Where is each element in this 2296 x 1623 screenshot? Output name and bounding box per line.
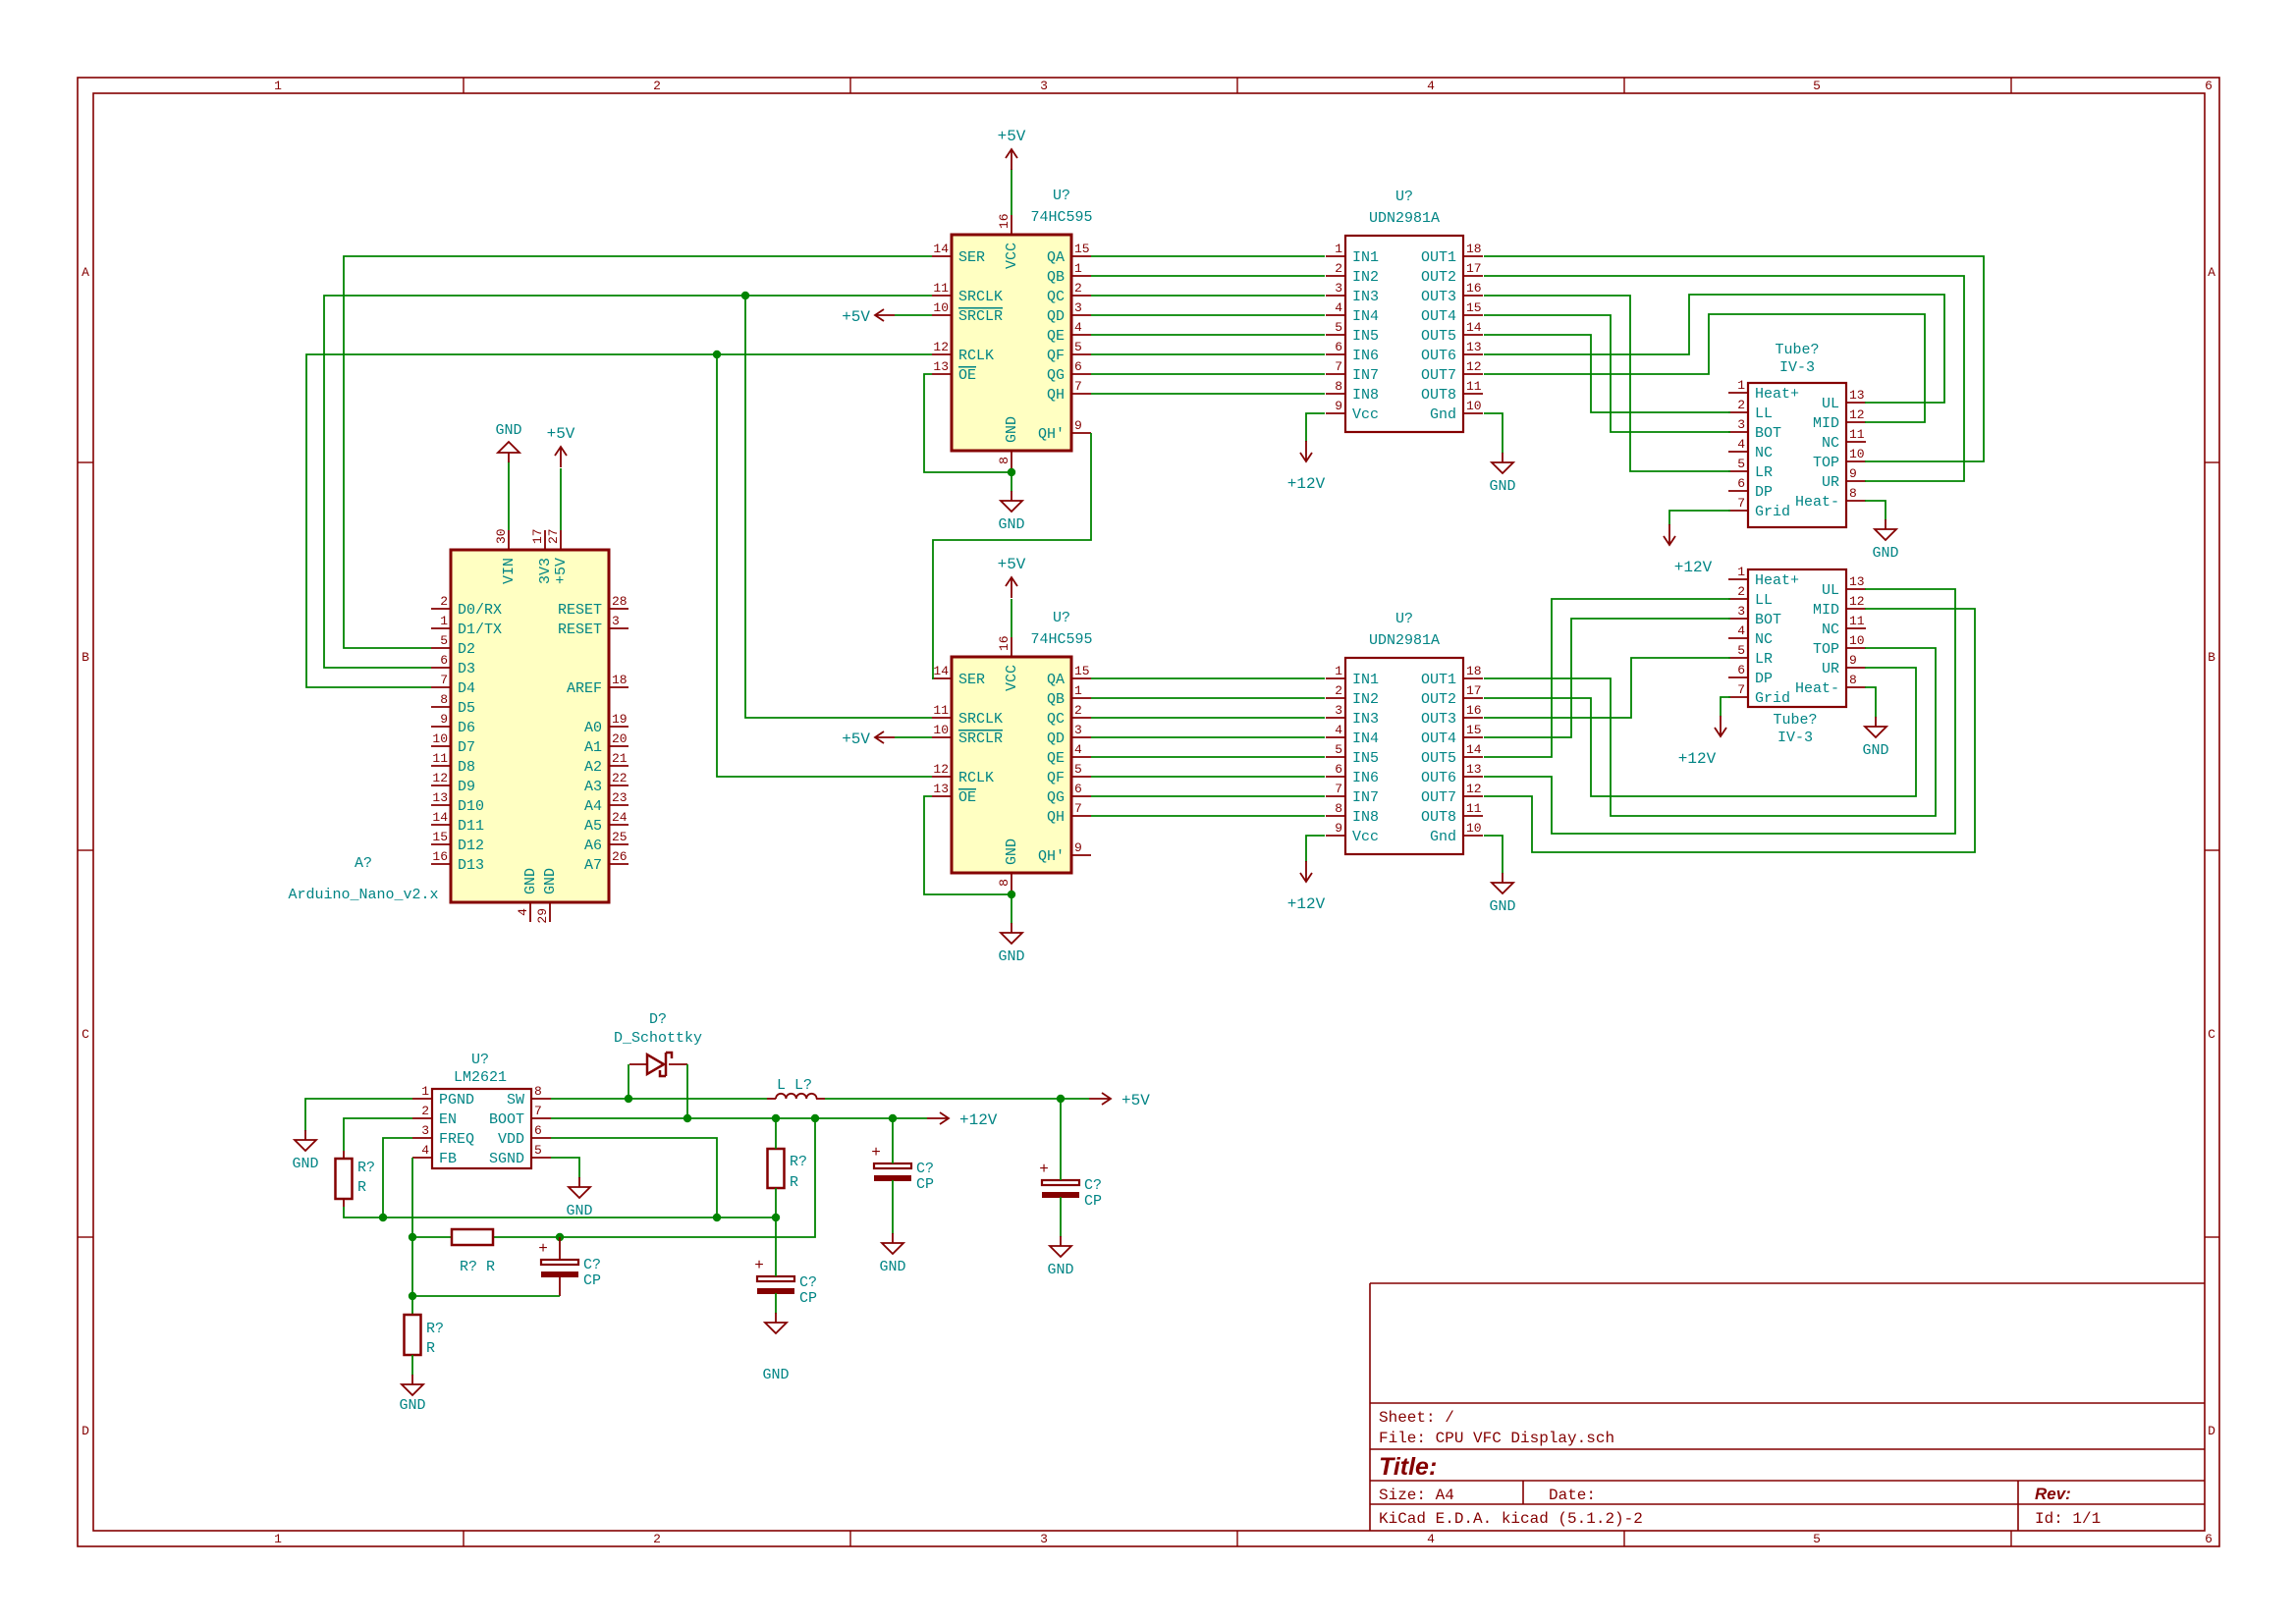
ground below U2: [998, 923, 1024, 965]
svg-text:C?: C?: [799, 1274, 817, 1291]
svg-text:RESET: RESET: [558, 602, 602, 619]
svg-text:IN2: IN2: [1352, 269, 1379, 286]
svg-text:20: 20: [612, 731, 628, 746]
svg-text:GND: GND: [1489, 478, 1515, 495]
svg-text:30: 30: [494, 528, 509, 544]
svg-text:SRCLR: SRCLR: [958, 730, 1003, 747]
svg-text:3V3: 3V3: [537, 558, 554, 584]
svg-text:2: 2: [1335, 261, 1342, 276]
svg-text:IV-3: IV-3: [1779, 359, 1815, 376]
svg-text:4: 4: [1074, 320, 1082, 335]
svg-text:5: 5: [1074, 340, 1082, 354]
junction U1 GND: [1008, 468, 1015, 476]
power +12V output arrow: [927, 1111, 998, 1129]
svg-text:IN3: IN3: [1352, 289, 1379, 305]
svg-text:9: 9: [440, 712, 448, 727]
svg-text:SGND: SGND: [489, 1151, 524, 1167]
svg-text:8: 8: [440, 692, 448, 707]
svg-text:2: 2: [1335, 683, 1342, 698]
svg-text:B: B: [2208, 650, 2215, 665]
svg-text:OUT4: OUT4: [1421, 730, 1456, 747]
svg-text:2: 2: [421, 1104, 429, 1118]
wire VCC U2 to +5V: [1011, 599, 1012, 637]
svg-text:C?: C?: [916, 1161, 934, 1177]
svg-text:16: 16: [997, 213, 1011, 229]
svg-text:2: 2: [440, 594, 448, 609]
svg-text:IN5: IN5: [1352, 328, 1379, 345]
svg-text:+: +: [871, 1144, 881, 1162]
power +5V above U1: [998, 128, 1026, 170]
wire inductor to +5V output: [825, 1098, 1089, 1100]
svg-text:8: 8: [997, 879, 1011, 887]
svg-text:C: C: [2208, 1027, 2215, 1042]
svg-text:1: 1: [1737, 378, 1745, 393]
wires U1 outputs to UDN1 inputs: [1091, 256, 1325, 394]
svg-text:OUT2: OUT2: [1421, 691, 1456, 708]
svg-text:D12: D12: [458, 838, 484, 854]
wire U1 GND pin down: [1011, 470, 1012, 492]
wire UDN1 Gnd down: [1484, 413, 1503, 454]
junction +12V FB tap: [811, 1114, 819, 1122]
svg-text:QC: QC: [1047, 711, 1065, 728]
svg-text:OUT8: OUT8: [1421, 387, 1456, 404]
svg-text:GND: GND: [998, 948, 1024, 965]
wire +5V pin up: [560, 468, 562, 530]
wire R1 bottom to VDD rail: [344, 1207, 776, 1217]
wire EN to R1 top: [344, 1118, 412, 1151]
svg-text:5: 5: [1813, 1532, 1821, 1546]
ground below C3: [762, 1313, 789, 1383]
svg-text:OUT5: OUT5: [1421, 328, 1456, 345]
svg-text:OUT4: OUT4: [1421, 308, 1456, 325]
svg-text:3: 3: [1074, 723, 1082, 737]
svg-text:LR: LR: [1755, 464, 1773, 481]
svg-text:1: 1: [1335, 242, 1342, 256]
svg-text:OUT7: OUT7: [1421, 367, 1456, 384]
svg-text:3: 3: [1335, 703, 1342, 718]
svg-text:12: 12: [432, 771, 448, 785]
svg-text:OUT7: OUT7: [1421, 789, 1456, 806]
svg-text:BOOT: BOOT: [489, 1111, 524, 1128]
svg-text:D9: D9: [458, 779, 475, 795]
svg-text:OUT6: OUT6: [1421, 770, 1456, 786]
wire OUT1 to tube2 TOP: [1484, 648, 1936, 816]
svg-text:7: 7: [534, 1104, 542, 1118]
svg-text:NC: NC: [1755, 631, 1773, 648]
wire OUT7 to tube1 MID: [1484, 314, 1925, 422]
svg-text:Heat-: Heat-: [1795, 680, 1839, 697]
svg-text:KiCad E.D.A. kicad (5.1.2)-2: KiCad E.D.A. kicad (5.1.2)-2: [1379, 1510, 1643, 1528]
resistor R3 (feedback): [452, 1229, 495, 1275]
wire VDD down: [551, 1138, 717, 1217]
wire diode anode up: [628, 1064, 629, 1099]
svg-text:GND: GND: [292, 1156, 318, 1172]
svg-text:6: 6: [1074, 359, 1082, 374]
svg-text:Rev:: Rev:: [2035, 1485, 2071, 1503]
svg-text:R: R: [790, 1174, 798, 1191]
svg-text:5: 5: [440, 633, 448, 648]
svg-text:VCC: VCC: [1004, 243, 1020, 269]
svg-text:R?: R?: [357, 1160, 375, 1176]
junction FB row1320: [409, 1292, 416, 1300]
svg-text:3: 3: [1074, 300, 1082, 315]
power +12V below tube2 Grid: [1678, 716, 1726, 768]
svg-text:17: 17: [1466, 683, 1482, 698]
svg-text:D0/RX: D0/RX: [458, 602, 502, 619]
svg-text:2: 2: [1737, 398, 1745, 412]
svg-text:CP: CP: [1084, 1193, 1102, 1210]
svg-text:11: 11: [1466, 379, 1482, 394]
svg-text:A7: A7: [584, 857, 602, 874]
ground below UDN2: [1489, 873, 1515, 915]
svg-text:Vcc: Vcc: [1352, 406, 1379, 423]
svg-text:10: 10: [1849, 633, 1865, 648]
svg-text:D4: D4: [458, 680, 475, 697]
svg-text:OE: OE: [958, 367, 976, 384]
svg-text:GND: GND: [399, 1397, 425, 1414]
svg-text:+12V: +12V: [959, 1111, 998, 1129]
svg-text:A0: A0: [584, 720, 602, 736]
junction C4 on +12V rail: [889, 1114, 897, 1122]
junction diode cathode on +12V rail: [683, 1114, 691, 1122]
svg-text:D5: D5: [458, 700, 475, 717]
svg-text:IN8: IN8: [1352, 809, 1379, 826]
junction RCLK net: [713, 351, 721, 358]
svg-text:OUT5: OUT5: [1421, 750, 1456, 767]
wire SRCLK branch to U2: [745, 296, 932, 718]
svg-text:+5V: +5V: [547, 425, 575, 443]
svg-text:RCLK: RCLK: [958, 770, 994, 786]
svg-text:Arduino_Nano_v2.x: Arduino_Nano_v2.x: [288, 887, 438, 903]
svg-text:NC: NC: [1755, 445, 1773, 461]
svg-text:GND: GND: [1047, 1262, 1073, 1278]
svg-text:SRCLK: SRCLK: [958, 711, 1003, 728]
svg-text:4: 4: [1335, 723, 1342, 737]
svg-text:C?: C?: [1084, 1177, 1102, 1194]
svg-text:CP: CP: [583, 1272, 601, 1289]
svg-text:VDD: VDD: [498, 1131, 524, 1148]
svg-text:6: 6: [1335, 340, 1342, 354]
svg-text:DP: DP: [1755, 671, 1773, 687]
svg-text:13: 13: [1466, 762, 1482, 777]
svg-text:GND: GND: [566, 1203, 592, 1219]
svg-text:A1: A1: [584, 739, 602, 756]
svg-text:1: 1: [274, 79, 282, 93]
svg-text:24: 24: [612, 810, 628, 825]
svg-text:VIN: VIN: [501, 558, 518, 584]
svg-text:14: 14: [933, 242, 949, 256]
wire UDN2 Gnd down: [1484, 836, 1503, 874]
svg-text:12: 12: [1849, 594, 1865, 609]
junction VDD rail: [713, 1214, 721, 1221]
capacitor C3: [754, 1217, 817, 1314]
power +5V at U1 SRCLR: [842, 308, 932, 326]
svg-text:1: 1: [421, 1084, 429, 1099]
svg-text:OUT3: OUT3: [1421, 289, 1456, 305]
ground below tube2 Heat-: [1862, 717, 1888, 759]
power +12V below UDN2: [1287, 861, 1326, 913]
svg-text:9: 9: [1335, 821, 1342, 836]
svg-text:Gnd: Gnd: [1430, 406, 1456, 423]
svg-text:4: 4: [1427, 79, 1435, 93]
svg-text:74HC595: 74HC595: [1030, 209, 1092, 226]
svg-text:UL: UL: [1822, 582, 1839, 599]
ground below U1: [998, 491, 1024, 533]
ground at LM2621 PGND: [292, 1130, 318, 1172]
svg-text:19: 19: [612, 712, 628, 727]
svg-text:QA: QA: [1047, 249, 1065, 266]
svg-text:QH: QH: [1047, 809, 1065, 826]
svg-text:3: 3: [1737, 604, 1745, 619]
svg-text:+5V: +5V: [553, 558, 570, 584]
wire diode cathode down: [686, 1064, 688, 1118]
svg-text:+5V: +5V: [998, 556, 1026, 573]
wires U2 outputs to UDN2 inputs: [1091, 678, 1325, 816]
svg-text:IN5: IN5: [1352, 750, 1379, 767]
svg-text:D2: D2: [458, 641, 475, 658]
svg-text:11: 11: [933, 703, 949, 718]
svg-text:8: 8: [1849, 673, 1857, 687]
VFD tube Tube2 IV-3: [1728, 565, 1866, 746]
junction R2 top: [772, 1114, 780, 1122]
svg-text:16: 16: [997, 635, 1011, 651]
svg-text:4: 4: [1737, 437, 1745, 452]
power +5V above U2: [998, 556, 1026, 598]
svg-text:IN8: IN8: [1352, 387, 1379, 404]
svg-text:Grid: Grid: [1755, 690, 1790, 707]
svg-text:LL: LL: [1755, 592, 1773, 609]
svg-text:QD: QD: [1047, 730, 1065, 747]
svg-text:RESET: RESET: [558, 622, 602, 638]
wire SW to diode anode: [551, 1098, 767, 1100]
wire D3 to SRCLK net: [324, 296, 932, 668]
svg-text:+12V: +12V: [1287, 475, 1326, 493]
svg-text:7: 7: [1737, 682, 1745, 697]
wire OUT1 to tube1 TOP: [1484, 256, 1984, 461]
svg-text:QA: QA: [1047, 672, 1065, 688]
svg-text:A2: A2: [584, 759, 602, 776]
svg-text:4: 4: [1737, 623, 1745, 638]
svg-text:18: 18: [1466, 242, 1482, 256]
capacitor C5: [1039, 1099, 1102, 1237]
capacitor C2: [538, 1237, 601, 1296]
svg-text:10: 10: [1849, 447, 1865, 461]
svg-text:+5V: +5V: [842, 308, 870, 326]
svg-text:NC: NC: [1822, 622, 1839, 638]
svg-text:22: 22: [612, 771, 628, 785]
svg-text:U?: U?: [1053, 188, 1070, 204]
wire UDN1 Vcc to +12V: [1306, 413, 1325, 442]
svg-text:21: 21: [612, 751, 628, 766]
svg-text:12: 12: [933, 762, 949, 777]
svg-text:R: R: [426, 1340, 435, 1357]
wire OUT3 to tube1 LR: [1484, 296, 1730, 471]
svg-text:4: 4: [516, 908, 530, 916]
svg-text:QB: QB: [1047, 269, 1065, 286]
svg-text:FREQ: FREQ: [439, 1131, 474, 1148]
wire OE2 to GND junction: [924, 796, 1011, 894]
svg-text:D: D: [2208, 1424, 2215, 1438]
svg-text:12: 12: [1466, 359, 1482, 374]
svg-text:6: 6: [440, 653, 448, 668]
svg-text:13: 13: [1466, 340, 1482, 354]
ground at LM2621 SGND: [566, 1177, 592, 1219]
svg-text:QG: QG: [1047, 367, 1065, 384]
svg-text:U?: U?: [1395, 189, 1413, 205]
svg-text:1: 1: [1737, 565, 1745, 579]
svg-text:3: 3: [1040, 1532, 1048, 1546]
svg-text:12: 12: [1849, 407, 1865, 422]
svg-text:B: B: [82, 650, 89, 665]
svg-text:12: 12: [933, 340, 949, 354]
svg-text:17: 17: [530, 528, 545, 544]
junction FREQ rail: [379, 1214, 387, 1221]
svg-text:QF: QF: [1047, 770, 1065, 786]
svg-text:C?: C?: [583, 1257, 601, 1273]
inductor L1: [767, 1077, 825, 1099]
svg-text:10: 10: [432, 731, 448, 746]
svg-text:Id: 1/1: Id: 1/1: [2035, 1510, 2101, 1528]
wire tube2 Grid to +12V: [1721, 697, 1730, 717]
MCU A1 Arduino Nano: [288, 528, 629, 923]
svg-text:13: 13: [1849, 574, 1865, 589]
svg-text:D?: D?: [649, 1011, 667, 1028]
svg-text:5: 5: [1737, 457, 1745, 471]
svg-text:7: 7: [1335, 359, 1342, 374]
svg-text:D3: D3: [458, 661, 475, 677]
svg-text:OUT2: OUT2: [1421, 269, 1456, 286]
svg-text:R?: R?: [790, 1154, 807, 1170]
svg-text:SW: SW: [507, 1092, 524, 1109]
svg-text:Heat+: Heat+: [1755, 572, 1799, 589]
svg-text:IN7: IN7: [1352, 367, 1379, 384]
svg-text:7: 7: [1335, 782, 1342, 796]
resistor R2 (divider top): [768, 1118, 808, 1217]
svg-text:+: +: [754, 1257, 764, 1274]
wire RCLK branch to U2: [717, 354, 932, 777]
svg-text:UL: UL: [1822, 396, 1839, 412]
wire OUT5 to tube2 LL: [1484, 599, 1730, 757]
svg-text:11: 11: [1849, 614, 1865, 628]
svg-text:8: 8: [1335, 801, 1342, 816]
svg-text:NC: NC: [1822, 435, 1839, 452]
svg-text:OUT1: OUT1: [1421, 672, 1456, 688]
svg-text:R? R: R? R: [460, 1259, 495, 1275]
svg-text:5: 5: [1737, 643, 1745, 658]
svg-text:2: 2: [1074, 281, 1082, 296]
svg-text:26: 26: [612, 849, 628, 864]
ground below tube1 Heat-: [1872, 519, 1898, 562]
wire OUT7 to tube2 MID: [1484, 609, 1975, 852]
svg-text:QF: QF: [1047, 348, 1065, 364]
svg-text:IV-3: IV-3: [1777, 730, 1813, 746]
svg-text:IN4: IN4: [1352, 308, 1379, 325]
svg-text:3: 3: [612, 614, 620, 628]
svg-text:Size: A4: Size: A4: [1379, 1487, 1454, 1504]
svg-text:27: 27: [546, 528, 561, 544]
svg-text:BOT: BOT: [1755, 425, 1781, 442]
svg-text:U?: U?: [1053, 610, 1070, 626]
svg-text:7: 7: [1737, 496, 1745, 511]
svg-text:U?: U?: [471, 1052, 489, 1068]
svg-text:QE: QE: [1047, 328, 1065, 345]
svg-text:QH': QH': [1038, 848, 1065, 865]
svg-text:2: 2: [653, 79, 661, 93]
svg-text:File: CPU VFC Display.sch: File: CPU VFC Display.sch: [1379, 1430, 1614, 1447]
wire BOOT +12V rail: [551, 1117, 927, 1119]
power +5V at U2 SRCLR: [842, 730, 932, 748]
svg-text:9: 9: [1074, 418, 1082, 433]
svg-text:R?: R?: [426, 1321, 444, 1337]
svg-text:1: 1: [1074, 683, 1082, 698]
svg-text:Heat-: Heat-: [1795, 494, 1839, 511]
wire UDN2 Vcc to +12V: [1306, 836, 1325, 862]
svg-text:8: 8: [1849, 486, 1857, 501]
svg-text:LM2621: LM2621: [454, 1069, 507, 1086]
svg-text:UDN2981A: UDN2981A: [1369, 210, 1440, 227]
svg-text:+: +: [1039, 1161, 1049, 1178]
wire OUT2 to tube1 UR: [1484, 276, 1964, 481]
svg-text:D6: D6: [458, 720, 475, 736]
wire tube1 Grid to +12V: [1669, 511, 1730, 525]
svg-text:FB: FB: [439, 1151, 457, 1167]
wire D2 to SER net: [344, 256, 932, 648]
svg-text:4: 4: [1335, 300, 1342, 315]
junction diode anode: [625, 1095, 632, 1103]
svg-text:R: R: [357, 1179, 366, 1196]
svg-text:3: 3: [1040, 79, 1048, 93]
diode D1 D_Schottky: [614, 1011, 702, 1076]
svg-text:EN: EN: [439, 1111, 457, 1128]
svg-text:11: 11: [432, 751, 448, 766]
svg-text:LR: LR: [1755, 651, 1773, 668]
svg-text:10: 10: [1466, 399, 1482, 413]
svg-text:GND: GND: [879, 1259, 905, 1275]
svg-text:29: 29: [535, 908, 550, 924]
svg-text:15: 15: [1074, 242, 1090, 256]
svg-text:A5: A5: [584, 818, 602, 835]
capacitor C4: [871, 1118, 934, 1234]
svg-text:15: 15: [1466, 723, 1482, 737]
wire C2 bottom to FB leg: [412, 1295, 560, 1297]
svg-text:74HC595: 74HC595: [1030, 631, 1092, 648]
svg-text:23: 23: [612, 790, 628, 805]
svg-text:9: 9: [1074, 840, 1082, 855]
svg-text:CP: CP: [916, 1176, 934, 1193]
svg-text:Heat+: Heat+: [1755, 386, 1799, 403]
svg-text:9: 9: [1849, 466, 1857, 481]
svg-text:10: 10: [933, 723, 949, 737]
svg-text:12: 12: [1466, 782, 1482, 796]
svg-text:2: 2: [653, 1532, 661, 1546]
svg-text:5: 5: [1335, 320, 1342, 335]
power +5V output arrow: [1089, 1092, 1150, 1109]
svg-text:MID: MID: [1813, 602, 1839, 619]
wire VIN to GND symbol: [508, 461, 510, 530]
driver U4 UDN2981A: [1326, 611, 1483, 854]
svg-text:D10: D10: [458, 798, 484, 815]
svg-text:D7: D7: [458, 739, 475, 756]
svg-text:D1/TX: D1/TX: [458, 622, 502, 638]
svg-text:6: 6: [534, 1123, 542, 1138]
svg-text:GND: GND: [542, 868, 559, 894]
svg-text:TOP: TOP: [1813, 455, 1839, 471]
svg-text:LL: LL: [1755, 406, 1773, 422]
shift register U2 74HC595: [932, 610, 1093, 893]
power +12V below UDN1: [1287, 441, 1326, 493]
svg-text:2: 2: [1737, 584, 1745, 599]
svg-text:4: 4: [1427, 1532, 1435, 1546]
